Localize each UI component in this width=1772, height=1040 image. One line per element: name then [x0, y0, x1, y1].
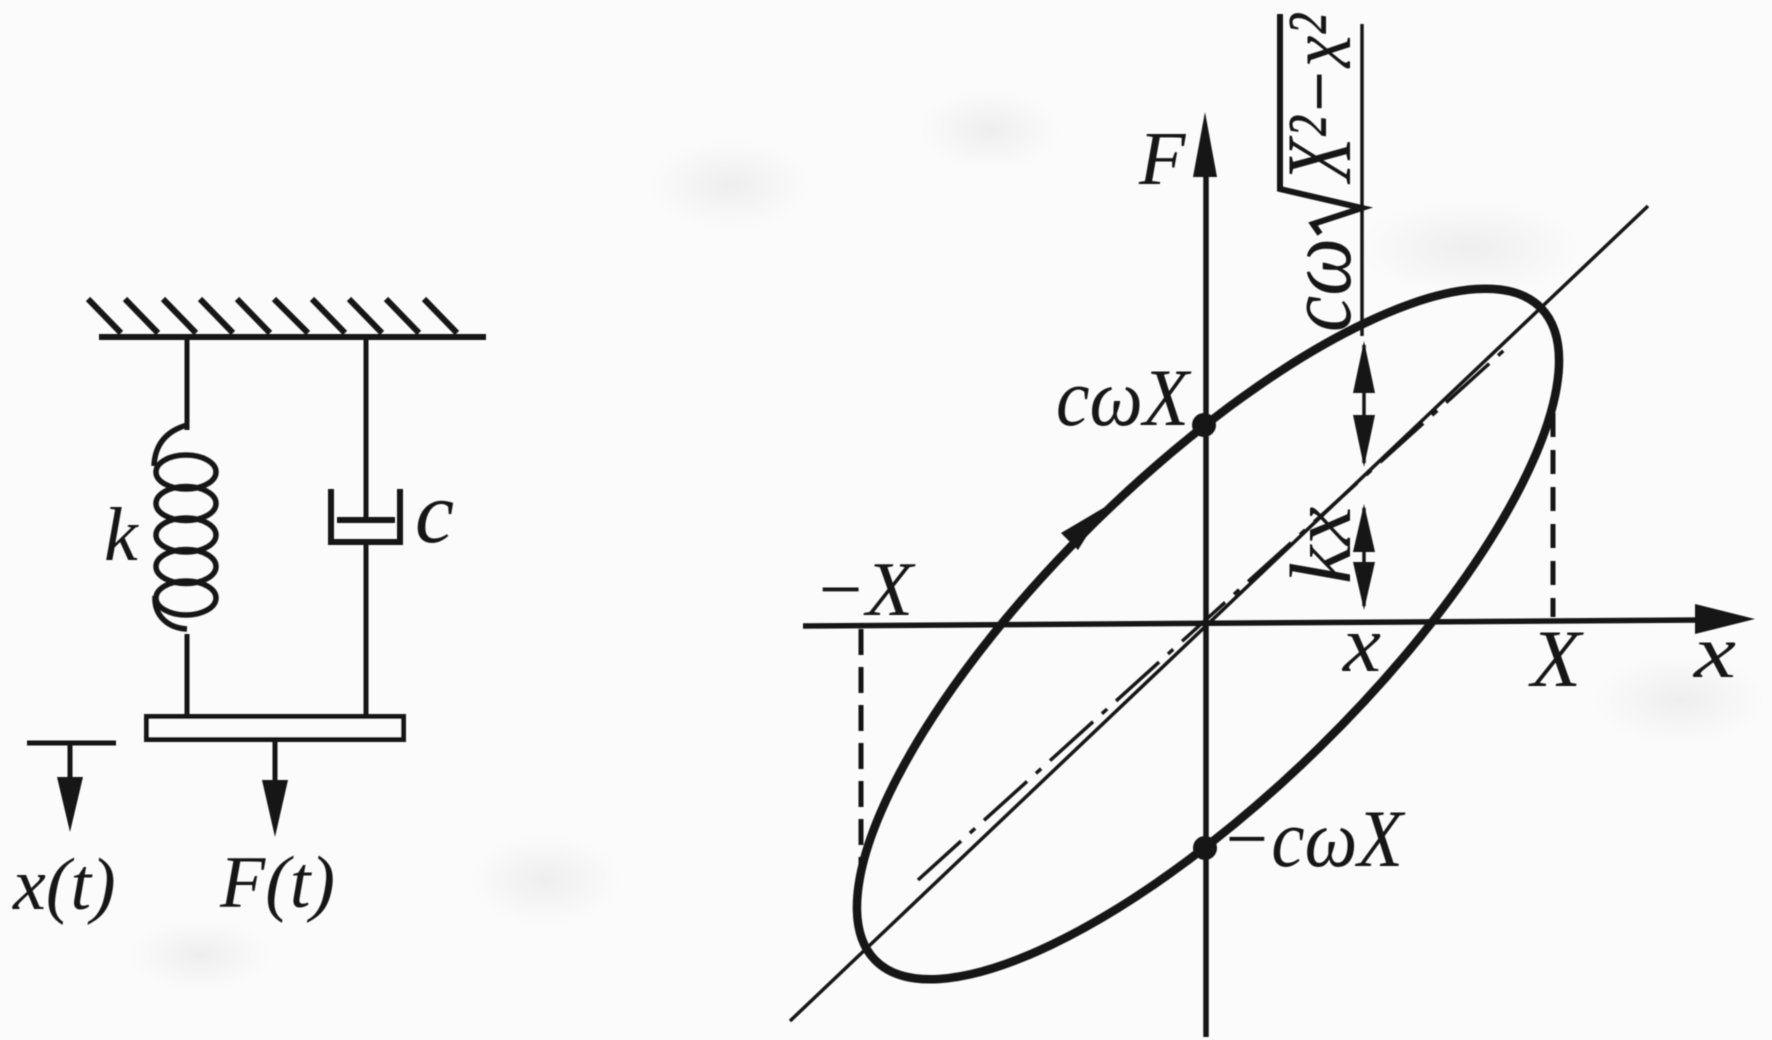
spring k bottom hook — [155, 596, 187, 629]
hysteresis loop ellipse — [764, 194, 1652, 1040]
wire spring top — [185, 338, 190, 430]
svg-text:x(t): x(t) — [12, 844, 116, 926]
svg-text:F: F — [1138, 117, 1187, 201]
damper piston plate — [337, 517, 395, 523]
svg-text:−X: −X — [814, 546, 916, 632]
dashed line X — [1551, 413, 1556, 617]
dashed line -X — [859, 629, 864, 886]
F axis — [1193, 112, 1217, 1037]
ceiling line — [99, 334, 486, 340]
mass bar — [147, 717, 404, 740]
dot cwX — [1192, 413, 1216, 437]
svg-text:cωX: cωX — [1056, 352, 1192, 443]
svg-text:kx: kx — [1272, 507, 1369, 584]
spring k coil — [156, 455, 216, 615]
dot -cwX — [1193, 836, 1217, 860]
svg-text:X²−x²: X²−x² — [1268, 13, 1370, 185]
dimension arrow kx — [1353, 504, 1375, 610]
x axis — [803, 604, 1755, 634]
leader line sqrt — [1360, 24, 1364, 336]
svg-text:F(t): F(t) — [219, 842, 335, 924]
svg-text:x: x — [1342, 601, 1381, 689]
svg-text:X: X — [1528, 613, 1584, 704]
dimension arrow cw sqrt — [1353, 341, 1375, 467]
F(t) arrow — [262, 741, 288, 837]
svg-text:cω: cω — [1268, 238, 1370, 332]
ceiling hatching — [88, 299, 457, 333]
wire damper top — [364, 338, 369, 520]
wire spring bottom — [185, 634, 190, 716]
damper cylinder cup — [331, 489, 400, 542]
direction arrow on loop — [1061, 507, 1105, 550]
svg-text:k: k — [104, 493, 139, 577]
label cw sqrt(X^2-x^2) rotated — [1268, 13, 1370, 332]
svg-text:−cωX: −cωX — [1221, 793, 1406, 884]
spring k top hook — [154, 425, 187, 466]
wire damper bottom — [364, 545, 369, 716]
x(t) reference tick — [27, 741, 116, 746]
svg-text:c: c — [415, 465, 454, 562]
x(t) arrow — [57, 745, 83, 832]
kx straight line — [790, 206, 1648, 1021]
major axis dash-dot line — [918, 343, 1512, 880]
svg-text:x: x — [1693, 611, 1736, 694]
